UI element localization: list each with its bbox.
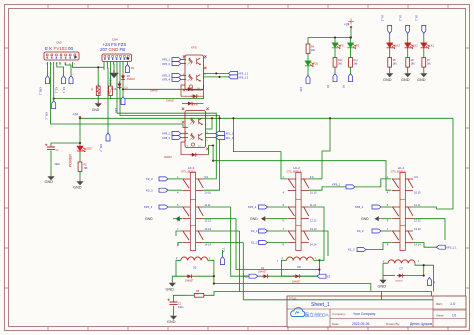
diode D6 1N4007: [262, 274, 270, 278]
node KF8_3 flag: [172, 136, 181, 140]
ground LK4 coil: [379, 278, 386, 284]
svg-text:GND: GND: [45, 180, 54, 184]
node F2S flag below CN4: [121, 97, 125, 105]
wire KF5 left flag stubs: [181, 59, 186, 61]
svg-text:GND: GND: [383, 78, 392, 82]
ground LK3 LED: [386, 71, 393, 77]
svg-text:1/1: 1/1: [452, 314, 457, 318]
diode D2 1N4007: [186, 87, 194, 91]
node KF8_2 flag: [372, 205, 381, 209]
wire F25 row: [258, 275, 262, 277]
ground C1: [47, 174, 54, 180]
svg-text:D6: D6: [298, 265, 302, 269]
svg-text:CN0: CN0: [56, 40, 62, 44]
svg-text:KF5_3: KF5_3: [162, 73, 170, 77]
relay LK3: [177, 173, 211, 251]
resistor R4 / LED F25 branch: [306, 44, 310, 54]
wire bundle v1: [231, 207, 249, 276]
wire LK2 left flag stubs: [268, 206, 288, 208]
wire CN4 FS flag stub: [126, 62, 128, 65]
diode D8 flyback: [185, 274, 193, 278]
node flag above LK1 LED: [422, 25, 426, 33]
svg-text:KF5_4: KF5_4: [162, 78, 170, 82]
svg-text:KFL_2: KFL_2: [99, 144, 103, 152]
svg-text:GND: GND: [166, 287, 175, 291]
wire top LED rail: [308, 37, 351, 39]
svg-text:F25: F25: [243, 274, 248, 278]
wire bundle v2: [236, 219, 319, 270]
svg-text:GND: GND: [378, 284, 387, 288]
wire long rail y299: [243, 299, 381, 301]
node KF5_4 flag: [172, 77, 181, 81]
wire long rail y291: [204, 292, 432, 297]
wire LK4 left pins: [381, 206, 392, 208]
node F25 in flag: [249, 274, 258, 278]
svg-text:1N4007: 1N4007: [164, 156, 173, 159]
svg-text:GND: GND: [250, 217, 258, 221]
svg-text:D7: D7: [400, 266, 404, 270]
svg-text:2k6: 2k6: [393, 62, 398, 65]
svg-text:G75_682B-6: G75_682B-6: [287, 169, 302, 173]
svg-text:K2_3: K2_3: [146, 177, 153, 181]
svg-text:KFB_1: KFB_1: [38, 87, 42, 95]
svg-text:GND: GND: [361, 217, 369, 221]
node KF5_2 flag: [172, 62, 181, 66]
ground LK2 LED: [404, 71, 411, 77]
node K3_2 flag: [372, 229, 381, 233]
svg-text:LK-3: LK-3: [188, 166, 195, 170]
svg-text:F2S: F2S: [114, 108, 118, 113]
op-amp KF5 optocoupler: [183, 46, 207, 92]
ground flag LK3: [175, 216, 182, 221]
fuse F1 2A: [109, 86, 113, 96]
node KFL_1 out flag: [216, 132, 225, 136]
svg-text:2A: 2A: [113, 88, 116, 91]
svg-text:207 GND FB: 207 GND FB: [100, 47, 125, 52]
node K2_1b flag: [259, 229, 268, 233]
wire LED branch E: [407, 33, 409, 42]
svg-text:KF8_3: KF8_3: [162, 136, 170, 140]
wire CN0 pin3: [53, 62, 55, 101]
wire right drop from +24 rail: [436, 118, 453, 209]
svg-text:REV:: REV:: [436, 302, 443, 306]
svg-text:KF5_1.2: KF5_1.2: [238, 75, 248, 79]
wire KF8 right pin1 to rail: [206, 118, 212, 129]
svg-text:2k0: 2k0: [311, 49, 316, 52]
node KF5_2 flag: [259, 205, 268, 209]
diode D3 1N4007: [186, 102, 194, 106]
wire R8/C2 branch: [185, 294, 194, 296]
svg-text:KF5_2: KF5_2: [248, 205, 257, 209]
LED LK2 / resistor R6 branch: [405, 43, 414, 49]
wire LK4 coil loop: [383, 263, 388, 275]
svg-text:K1_2: K1_2: [348, 248, 355, 252]
svg-text:100u: 100u: [178, 306, 184, 309]
inductor D5 coil: [181, 257, 208, 260]
svg-text:LED7: LED7: [86, 147, 93, 151]
LED F0 / resistor R11 branch: [347, 43, 356, 49]
ground under CN4: [109, 70, 119, 78]
wire KF8 drop to lower rail: [212, 146, 214, 161]
svg-text:GND: GND: [92, 108, 100, 112]
node KF8_1 flag: [172, 132, 181, 136]
wire bundle v4: [242, 243, 244, 300]
node K2_1 flag: [62, 76, 66, 84]
connector CN4: [100, 37, 132, 61]
wire C1 down: [50, 151, 52, 175]
wire KF8 outputs: [206, 133, 216, 135]
svg-text:LK-4: LK-4: [398, 166, 405, 170]
ground LK3 coil: [169, 281, 176, 287]
svg-text:1N4007: 1N4007: [166, 100, 175, 103]
ground C2: [170, 314, 177, 320]
diode D11 flyback LK4: [397, 274, 405, 278]
svg-text:POWER: POWER: [69, 154, 73, 167]
svg-text:KF8: KF8: [192, 103, 198, 107]
svg-text:GND: GND: [73, 185, 82, 189]
wire LED branch F: [423, 33, 425, 42]
svg-text:Денис Цупров: Денис Цупров: [410, 322, 432, 326]
node KF9_1 flag: [346, 185, 355, 189]
wire bundle v3: [239, 231, 241, 292]
resistor R2: [78, 162, 82, 172]
resistor R8: [194, 293, 204, 297]
diode D0: [121, 74, 125, 82]
svg-text:+24: +24: [73, 113, 79, 117]
wire LED branch A: [307, 38, 309, 45]
wire lower rail y160 to LK4 pin4: [213, 161, 391, 191]
svg-text:1N4007: 1N4007: [395, 281, 403, 283]
node flag above LK2 LED: [406, 25, 410, 33]
svg-text:1N4007: 1N4007: [185, 279, 194, 282]
node KF5_1.2 flag: [228, 75, 237, 79]
node K1_2 flag: [259, 241, 268, 245]
op-amp KF8 optocoupler: [182, 103, 209, 150]
node K2_3 flag: [159, 177, 168, 181]
wire x330 drop: [322, 118, 330, 179]
ground R2: [76, 179, 83, 185]
svg-text:2k6: 2k6: [354, 62, 359, 65]
wire CN0 pin4: [57, 62, 64, 76]
wire LK4 drop to bottom rail: [433, 265, 435, 291]
LED LK3 / resistor R5 branch: [387, 43, 396, 49]
wire R1 column: [97, 67, 99, 86]
node F5 bottom flag: [333, 74, 337, 82]
node K1_2b flag: [357, 248, 366, 252]
svg-text:GND: GND: [417, 78, 426, 82]
svg-text:2k6: 2k6: [338, 62, 343, 65]
svg-text:F25: F25: [314, 62, 319, 66]
svg-text:Date:: Date:: [332, 322, 339, 326]
svg-text:220u: 220u: [55, 163, 61, 166]
svg-text:K3_3: K3_3: [146, 188, 153, 192]
svg-text:KFS_1.1: KFS_1.1: [446, 245, 457, 249]
node flag above LK3 LED: [388, 25, 392, 33]
LED LK1 / resistor R7 branch: [421, 43, 430, 49]
svg-text:K2_1: K2_1: [251, 229, 258, 233]
svg-text:2k6: 2k6: [427, 62, 432, 65]
wire CN4 col to KF8 pin row1: [117, 62, 216, 179]
svg-text:E K FV103 00: E K FV103 00: [45, 46, 74, 51]
wire title inset: [381, 292, 383, 300]
svg-text:LK_1: LK_1: [415, 15, 419, 22]
svg-text:2k6: 2k6: [411, 62, 416, 65]
relay LK4: [387, 173, 421, 251]
svg-text:G75_682B-6: G75_682B-6: [391, 169, 406, 173]
wire LK2 coil loop: [282, 260, 294, 276]
diode D4 under KF5: [191, 94, 199, 98]
svg-text:Sheet_1: Sheet_1: [311, 302, 330, 308]
wire CN0 pin1: [47, 62, 49, 76]
svg-text:GND: GND: [401, 78, 410, 82]
svg-text:LK_2: LK_2: [399, 15, 403, 22]
svg-text:LK_3: LK_3: [381, 15, 385, 22]
svg-text:GND: GND: [167, 320, 176, 324]
svg-text:LK1: LK1: [429, 44, 434, 48]
wire +24 rail: [80, 117, 453, 119]
wire LED branch C: [350, 38, 352, 43]
wire CN0 node rail: [54, 96, 204, 98]
svg-text:CN4: CN4: [112, 37, 118, 41]
svg-text:KFL_1: KFL_1: [45, 112, 49, 120]
ground LK1 LED: [420, 71, 427, 77]
svg-text:KF5_2: KF5_2: [162, 62, 170, 66]
wire CN4 pin7 diode col: [122, 62, 124, 74]
ground flag LK4: [374, 216, 381, 221]
svg-text:K3_2: K3_2: [357, 229, 364, 233]
svg-text:KF9_1: KF9_1: [332, 183, 341, 187]
node K3_1 flag: [69, 76, 73, 84]
svg-text:1.0: 1.0: [450, 302, 455, 306]
wire KF5 bottom diode loop: [181, 85, 191, 96]
wire mid diode row: [182, 103, 186, 105]
node KF5_3b flag: [159, 205, 168, 209]
wire opto feed line KFL_2: [107, 62, 110, 134]
svg-text:LK-2: LK-2: [294, 166, 301, 170]
svg-text:K2: K2: [327, 274, 331, 278]
svg-text:1N4007: 1N4007: [127, 78, 136, 81]
node KF5_1.1 flag: [228, 71, 237, 75]
svg-text:+24: +24: [344, 23, 350, 27]
svg-text:KFL_1: KFL_1: [226, 132, 234, 136]
wire LK3 pins7/8: [176, 231, 182, 236]
svg-text:K_1: K_1: [221, 247, 225, 252]
svg-text:GND: GND: [109, 78, 113, 86]
svg-text:K2_1: K2_1: [54, 87, 58, 94]
ground flag LK2: [261, 216, 268, 221]
wire LK3 right mid: [203, 206, 230, 208]
ground under R1: [95, 101, 102, 107]
wire KF8 input flag stubs: [181, 133, 188, 135]
wire CN0 pin2 long left rail: [51, 62, 189, 128]
junction node CN0 rail: [53, 98, 55, 100]
svg-text:1N4007: 1N4007: [258, 271, 267, 274]
inductor D7 coil LK4: [388, 260, 415, 263]
wire CN0 pin5: [59, 62, 61, 65]
svg-text:嘉立创EDA: 嘉立创EDA: [305, 312, 330, 319]
svg-text:D5: D5: [193, 266, 197, 270]
capacitor C2: [168, 299, 178, 305]
svg-text:KF5_1: KF5_1: [162, 58, 170, 62]
svg-text:KFL_3: KFL_3: [226, 136, 234, 140]
wire K_1 flag stub: [222, 250, 224, 257]
svg-text:Company:: Company:: [332, 312, 346, 316]
diode D9 flyback LK2: [293, 274, 301, 278]
svg-text:7k5: 7k5: [84, 167, 89, 170]
node F0 bottom flag: [349, 74, 353, 82]
svg-text:Drawn By:: Drawn By:: [386, 322, 400, 326]
wire CN4 col to KF8 pin row2: [120, 62, 220, 191]
capacitor C1: [45, 144, 55, 150]
inductor D6b coil LK2: [287, 257, 314, 260]
svg-text:Your Company: Your Company: [353, 312, 376, 316]
svg-text:KF8_2: KF8_2: [355, 205, 364, 209]
diode D10 under KF8: [190, 153, 198, 157]
wire KF8 bottom loop and drops: [181, 142, 190, 155]
wire CN4 D-column: [123, 82, 190, 90]
svg-text:G75_682B-6: G75_682B-6: [181, 169, 196, 173]
wire staircase to LK2 pin1: [233, 118, 287, 179]
diode D1: [118, 82, 122, 90]
wire LK3 coil loop: [176, 260, 185, 276]
wire CN0 pin7 to R1: [73, 62, 99, 67]
wire +24 left riser: [79, 117, 81, 120]
svg-text:KF5: KF5: [191, 46, 197, 50]
svg-text:FS: FS: [131, 67, 134, 70]
connector CN0: [44, 40, 79, 65]
node KFL_2 flag: [106, 133, 110, 141]
LED F5 / resistor R10 branch: [332, 43, 341, 49]
svg-text:F25: F25: [299, 87, 303, 92]
wire LED branch D: [389, 33, 391, 42]
node K2 flag: [317, 274, 326, 278]
node KFB_1 flag: [46, 76, 50, 84]
wire LED7 branch: [79, 118, 81, 146]
node F25 bottom flag: [306, 75, 310, 83]
node KFL_1 flag: [52, 101, 56, 109]
wire KFL flag branch: [122, 89, 124, 96]
node q flag LK4: [428, 278, 432, 286]
wire KF9 row: [355, 179, 391, 187]
svg-text:LK2: LK2: [413, 44, 418, 48]
node K3_3 flag: [159, 188, 168, 192]
node KF5_3 flag: [172, 73, 181, 77]
relay LK2: [283, 173, 317, 251]
wire CN0 pin6: [65, 62, 71, 76]
svg-text:K1_2: K1_2: [251, 241, 258, 245]
svg-text:K3_1: K3_1: [62, 87, 66, 94]
wire CN4 pins: [103, 62, 105, 71]
svg-text:LK3: LK3: [395, 44, 400, 48]
svg-text:1N4007: 1N4007: [150, 89, 159, 92]
svg-text:Sheet:: Sheet:: [436, 313, 444, 317]
resistor R1: [96, 86, 100, 96]
svg-text:KF5_1.1: KF5_1.1: [238, 72, 248, 76]
node KFL_3 out flag: [216, 136, 225, 140]
node FS flag right of CN4: [125, 65, 129, 73]
svg-text:KF8_1: KF8_1: [162, 132, 170, 136]
node KF5_1 flag: [172, 58, 181, 62]
wire x351 riser: [350, 27, 352, 38]
wire long rail y283: [214, 284, 371, 291]
wire KF5 outputs: [203, 72, 228, 74]
title block: [287, 296, 466, 327]
node KFS_1.1 flag: [436, 245, 445, 249]
svg-text:GND: GND: [145, 217, 153, 221]
svg-text:1N4007: 1N4007: [292, 281, 301, 284]
svg-text:2022-09-26: 2022-09-26: [352, 322, 369, 326]
wire LED branch B: [334, 38, 336, 43]
node K_1 flag: [221, 257, 225, 265]
LED LED7: [77, 146, 86, 152]
wire LK2 right pins: [309, 178, 322, 180]
svg-text:KF5_3: KF5_3: [144, 205, 153, 209]
wire LK4 right pins: [413, 207, 436, 209]
